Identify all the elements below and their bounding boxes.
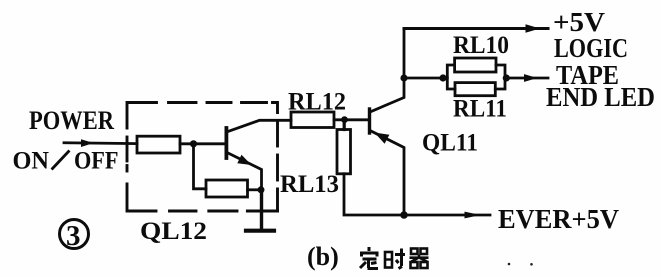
wire left bracket of parallel pair — [447, 65, 455, 89]
svg-text:RL10: RL10 — [453, 32, 509, 59]
caption chinese char qi (器) — [410, 249, 429, 269]
dashed box around QL12 stage — [127, 103, 278, 212]
wire bottom rail to EVER+5V — [404, 214, 490, 217]
transistor QL11 collector — [371, 29, 404, 112]
wire rail to RL10/RL11 pair — [404, 77, 447, 80]
ground — [246, 229, 274, 233]
svg-text:QL12: QL12 — [140, 218, 207, 245]
node bottom rail / QL11 emitter — [400, 211, 408, 219]
transistor QL12 collector — [228, 120, 291, 131]
wire to TAPE END LED — [505, 77, 548, 80]
resistor RL10 — [455, 58, 496, 72]
svg-text:RL11: RL11 — [453, 96, 507, 123]
svg-text:QL11: QL11 — [422, 130, 478, 157]
resistor RL11 — [455, 83, 495, 96]
node left junction of RL10/RL11 — [439, 74, 446, 81]
arrowhead +5V rail — [526, 24, 541, 32]
svg-text:ON: ON — [13, 148, 50, 175]
wire RL13 to bottom rail — [344, 174, 404, 215]
wire top rail to +5V LOGIC — [404, 27, 548, 30]
svg-text:EVER+5V: EVER+5V — [498, 204, 619, 234]
svg-text:RL13: RL13 — [280, 171, 339, 198]
svg-text:END LED: END LED — [546, 82, 655, 112]
svg-text:LOGIC: LOGIC — [554, 33, 628, 63]
node RL12/RL13 junction — [341, 116, 348, 123]
resistor RL13 — [337, 130, 351, 174]
transistor QL12 emitter — [228, 153, 262, 190]
resistor feedback (base-emitter of QL12) — [206, 180, 248, 197]
wire input from POWER label — [64, 141, 137, 145]
arrowhead input wire — [81, 139, 94, 147]
transistor QL12 base bar — [224, 128, 228, 158]
speck — [530, 263, 533, 266]
svg-text:POWER: POWER — [29, 106, 114, 135]
wire resistor to base node — [180, 142, 225, 145]
speck — [508, 263, 511, 266]
resistor input (unlabeled, in dashed box) — [137, 136, 180, 153]
node tape branch on rail — [400, 74, 407, 81]
arrowhead bottom rail — [465, 212, 481, 219]
wire emitter to ground — [260, 190, 263, 229]
node right junction of RL10/RL11 — [503, 74, 510, 81]
resistor RL12 — [291, 112, 334, 128]
svg-text:(b): (b) — [307, 242, 339, 271]
arrowhead QL12 emitter — [237, 155, 251, 165]
figure number circled 3 — [60, 220, 89, 249]
caption chinese char ding (定) — [360, 247, 379, 269]
transistor QL11 base bar — [368, 109, 371, 133]
arrowhead tape wire — [524, 74, 538, 82]
svg-text:3: 3 — [66, 220, 81, 252]
node emitter junction — [258, 186, 265, 193]
transistor QL11 emitter — [371, 131, 404, 215]
wire node down to feedback resistor — [194, 144, 207, 189]
wire feedback resistor to emitter node — [248, 188, 261, 191]
svg-text:OFF: OFF — [74, 148, 119, 175]
node base of QL12 — [190, 140, 197, 147]
wire junction down to RL13 — [343, 120, 346, 130]
wire right bracket of parallel pair — [495, 65, 505, 89]
wire RL12 to QL11 base — [334, 118, 368, 121]
caption chinese char shi (时) — [385, 249, 406, 269]
arrowhead QL11 emitter (PNP) — [375, 133, 390, 144]
